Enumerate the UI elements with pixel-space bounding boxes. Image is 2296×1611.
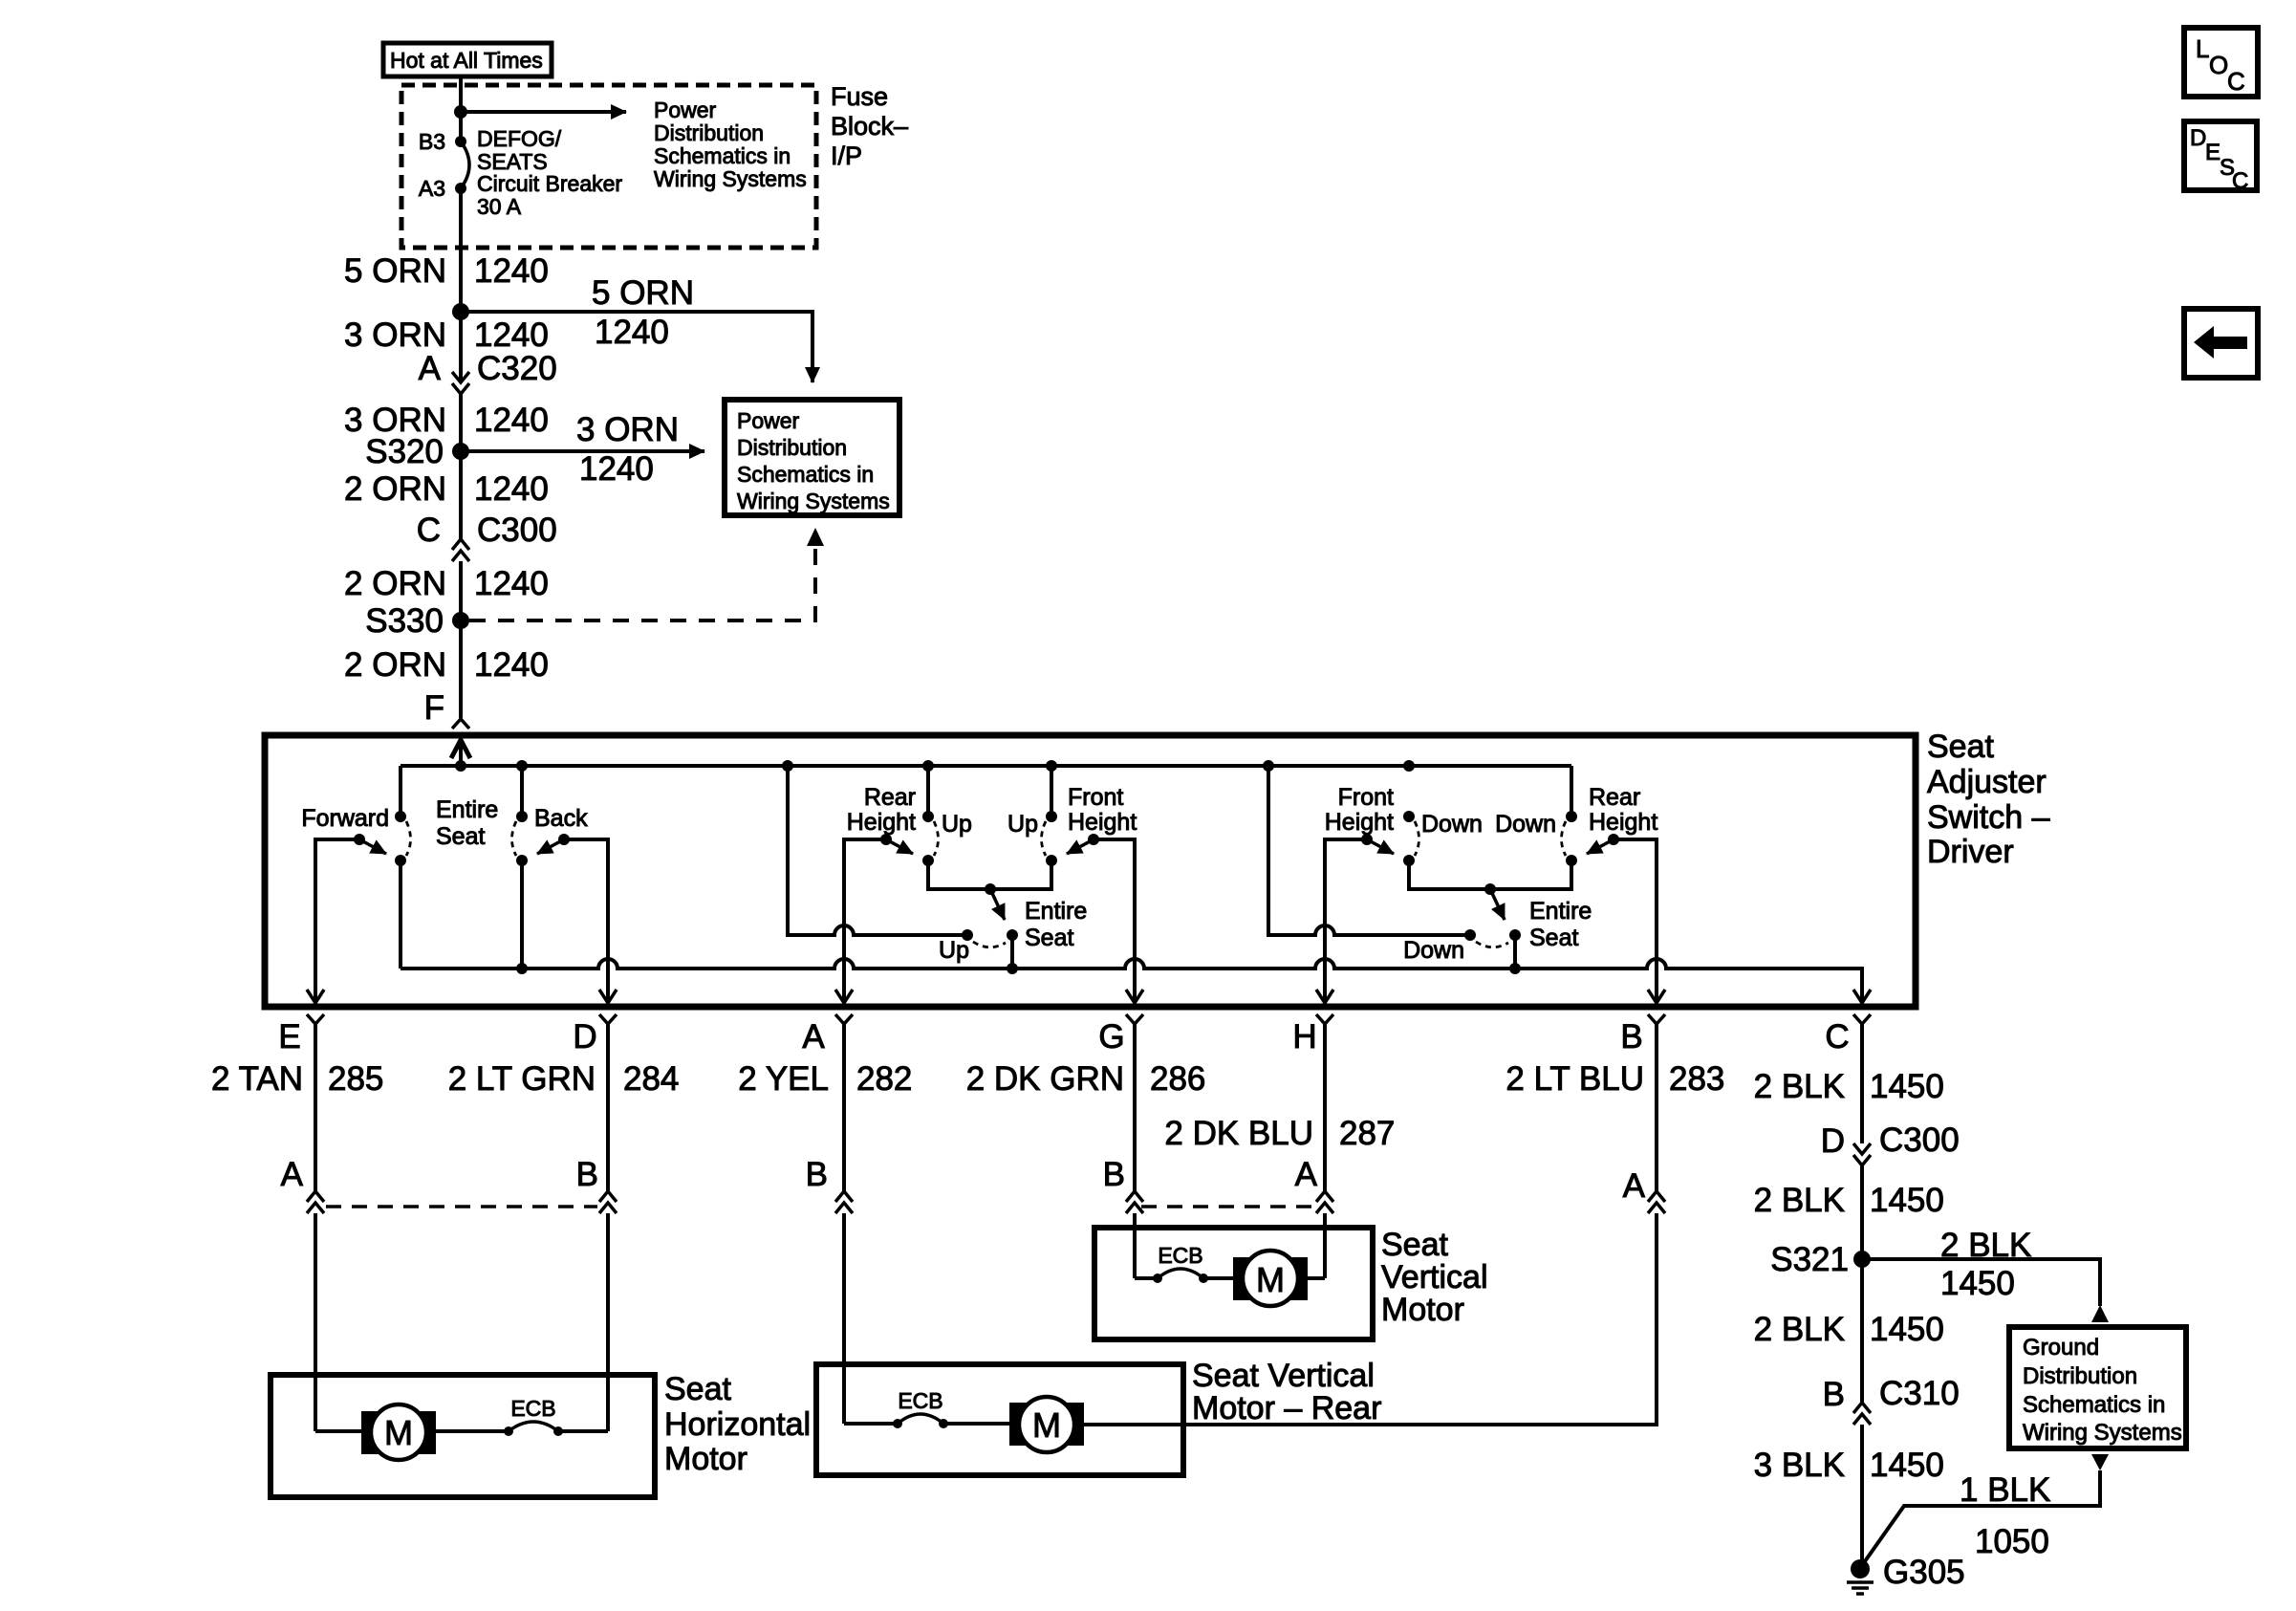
switch Entire Seat Up <box>939 883 1087 969</box>
svg-text:A3: A3 <box>419 176 445 201</box>
svg-text:Height: Height <box>847 809 916 836</box>
label 5 ORN 1240 <box>344 252 549 290</box>
connector C310 pin B <box>1823 1375 1960 1425</box>
svg-text:B: B <box>1823 1376 1845 1413</box>
svg-text:Schematics in: Schematics in <box>737 462 874 487</box>
vertical motor rear M <box>1009 1397 1183 1452</box>
svg-text:2 LT BLU: 2 LT BLU <box>1505 1060 1644 1098</box>
node entire seat down output on bus <box>1509 963 1521 974</box>
seat vertical motor label <box>1381 1227 1488 1328</box>
back arrow box <box>2184 309 2258 378</box>
internal supply bus <box>401 764 1571 768</box>
svg-text:Horizontal: Horizontal <box>664 1406 811 1443</box>
feed drop to back switch <box>520 766 524 816</box>
svg-text:Wiring Systems: Wiring Systems <box>654 166 807 191</box>
svg-text:B: B <box>576 1156 598 1193</box>
wire C320 to S320 <box>459 394 463 451</box>
svg-text:Distribution: Distribution <box>2023 1363 2137 1389</box>
branch 2 BLK 1450 to ground distribution box <box>1862 1227 2109 1322</box>
svg-text:C310: C310 <box>1879 1375 1960 1412</box>
link front/rear height down outputs <box>1409 860 1571 889</box>
svg-text:ECB: ECB <box>510 1396 555 1421</box>
svg-text:287: 287 <box>1339 1115 1395 1152</box>
node entire-seat-down feed <box>1263 760 1274 772</box>
svg-text:D: D <box>573 1018 596 1056</box>
vertical motor M <box>1233 1251 1325 1306</box>
svg-text:Motor: Motor <box>1381 1292 1464 1328</box>
svg-text:Seat: Seat <box>664 1371 731 1407</box>
fuse block label <box>831 82 908 170</box>
wire to C320 <box>459 312 463 382</box>
seat vertical motor box <box>1094 1228 1373 1339</box>
wire C300 to S330 <box>459 561 463 620</box>
label 2 ORN 1240 <box>344 470 549 508</box>
connector C300 pin D (ground path) <box>1821 1121 1960 1165</box>
exit arrow G <box>1126 990 1143 1003</box>
pin A3 <box>419 176 466 201</box>
back output wire <box>520 860 524 969</box>
svg-text:M: M <box>1256 1260 1285 1299</box>
seat adjuster switch box <box>265 735 1916 1007</box>
svg-text:2 TAN: 2 TAN <box>211 1060 303 1098</box>
svg-text:Switch –: Switch – <box>1927 799 2050 836</box>
svg-text:A: A <box>419 350 442 387</box>
svg-text:C: C <box>417 512 441 549</box>
splice S321 <box>1770 1241 1871 1278</box>
svg-text:1450: 1450 <box>1870 1311 1944 1348</box>
label 2 YEL 282 <box>738 1060 912 1098</box>
svg-text:Up: Up <box>1007 811 1038 838</box>
feed drop to entire seat up contact <box>788 766 963 935</box>
inline connector B on dk grn wire <box>1103 1156 1143 1213</box>
Hot at All Times box <box>383 43 552 76</box>
svg-text:E: E <box>278 1018 300 1056</box>
svg-text:1450: 1450 <box>1940 1265 2015 1302</box>
link rear/front height up outputs <box>928 860 1051 889</box>
svg-text:Seat: Seat <box>436 823 485 850</box>
svg-text:Front: Front <box>1068 784 1123 811</box>
svg-text:Entire: Entire <box>1025 898 1087 925</box>
svg-text:1240: 1240 <box>474 646 549 684</box>
svg-text:Height: Height <box>1325 809 1394 836</box>
svg-text:S321: S321 <box>1770 1241 1849 1278</box>
label 2 DK BLU 287 <box>1164 1115 1395 1152</box>
svg-text:2 DK GRN: 2 DK GRN <box>966 1060 1124 1098</box>
connector H below box <box>1292 1014 1333 1191</box>
internal bottom bus to C <box>401 959 1862 1002</box>
svg-text:S330: S330 <box>365 602 444 640</box>
rear height down pole wire to B <box>1614 839 1657 1002</box>
power distribution note (fuse block) <box>654 98 807 191</box>
DESC reference box <box>2184 121 2257 194</box>
node F on bus <box>455 760 466 772</box>
dashed link dk grn to dk blu connector <box>1141 1205 1317 1208</box>
svg-text:Rear: Rear <box>1589 784 1640 811</box>
entry arrow at F <box>451 740 470 766</box>
wire S321 to C310 <box>1860 1259 1864 1403</box>
svg-text:3 BLK: 3 BLK <box>1754 1447 1845 1484</box>
label 2 TAN 285 <box>211 1060 383 1098</box>
wire from Hot at All Times to circuit breaker B3 <box>459 76 463 142</box>
svg-text:Wiring Systems: Wiring Systems <box>737 489 890 513</box>
svg-text:2 BLK: 2 BLK <box>1940 1227 2031 1264</box>
wire A3 down to junction <box>459 188 463 312</box>
label 3 ORN 1240 <box>344 316 549 354</box>
junction in fuse block <box>454 105 467 119</box>
svg-text:1450: 1450 <box>1870 1182 1944 1219</box>
svg-text:I/P: I/P <box>831 142 862 170</box>
wire G to vertical motor <box>1133 1213 1137 1278</box>
wire B to vertical motor rear <box>1183 1213 1657 1425</box>
svg-text:C: C <box>2227 67 2245 96</box>
svg-text:G: G <box>1098 1018 1124 1056</box>
svg-text:282: 282 <box>856 1060 912 1098</box>
svg-text:1240: 1240 <box>474 402 549 439</box>
inline connector A on dk blu wire <box>1295 1156 1333 1213</box>
feed drop to forward switch <box>399 766 402 816</box>
svg-text:Rear: Rear <box>864 784 916 811</box>
forward output wire <box>399 860 402 969</box>
svg-text:Hot at All Times: Hot at All Times <box>390 48 543 73</box>
svg-text:Up: Up <box>939 937 969 964</box>
svg-text:2 YEL: 2 YEL <box>738 1060 829 1098</box>
back pole wire to D <box>564 839 608 1002</box>
svg-text:C: C <box>2232 168 2248 194</box>
switch Back <box>512 805 589 866</box>
node rear-height-up feed <box>922 760 934 772</box>
inline connector A on tan wire <box>281 1156 324 1213</box>
svg-text:D: D <box>2190 125 2206 151</box>
svg-text:Front: Front <box>1338 784 1394 811</box>
inline connector A on lt blu wire <box>1623 1167 1665 1213</box>
svg-text:Ground: Ground <box>2023 1335 2099 1361</box>
splice S330 <box>365 602 469 640</box>
svg-text:S320: S320 <box>365 433 444 470</box>
svg-text:5 ORN: 5 ORN <box>344 252 446 290</box>
feed drop to rear height down <box>1570 766 1573 816</box>
svg-text:2 LT GRN: 2 LT GRN <box>448 1060 596 1098</box>
svg-text:C: C <box>1825 1018 1849 1056</box>
svg-text:ECB: ECB <box>1158 1243 1202 1268</box>
inline connector B on yel wire <box>806 1156 853 1213</box>
switch Rear Height Up <box>847 784 972 866</box>
connector G below box <box>1098 1014 1143 1191</box>
power distribution box <box>725 400 899 515</box>
svg-text:A: A <box>281 1156 304 1193</box>
svg-text:3 ORN: 3 ORN <box>576 411 679 448</box>
node front-height-up feed <box>1046 760 1057 772</box>
switch Forward <box>301 805 410 866</box>
svg-text:Forward: Forward <box>301 805 389 832</box>
wire A to vertical motor rear <box>842 1213 846 1424</box>
seat vertical motor rear box <box>816 1364 1183 1475</box>
label 2 ORN 1240 <box>344 646 549 684</box>
svg-text:ECB: ECB <box>898 1388 942 1413</box>
wire C300 to S321 <box>1860 1165 1864 1259</box>
label 3 BLK 1450 <box>1754 1447 1944 1484</box>
fuse block dashed box <box>401 85 816 248</box>
svg-text:C300: C300 <box>1879 1121 1960 1159</box>
branch wire 5 ORN to power distribution box <box>461 312 812 382</box>
branch 1 BLK 1050 to ground distribution box <box>1865 1454 2109 1561</box>
feed drop to rear height up <box>926 766 930 816</box>
label 2 BLK 1450 <box>1754 1311 1944 1348</box>
svg-text:2 ORN: 2 ORN <box>344 470 446 508</box>
svg-text:B: B <box>806 1156 828 1193</box>
svg-text:D: D <box>1821 1122 1845 1160</box>
svg-text:2 BLK: 2 BLK <box>1754 1068 1845 1105</box>
connector B below box <box>1620 1014 1665 1191</box>
svg-text:Motor: Motor <box>664 1441 747 1477</box>
label 5 ORN 1240 (branch) <box>592 274 694 351</box>
svg-text:Distribution: Distribution <box>737 435 847 460</box>
node front-height-down feed <box>1403 760 1415 772</box>
seat adjuster switch label <box>1927 729 2050 870</box>
svg-text:B: B <box>1620 1018 1642 1056</box>
svg-text:Entire: Entire <box>1529 898 1592 925</box>
connector C below box <box>1825 1014 1871 1143</box>
exit arrow E <box>307 990 324 1003</box>
wire H to vertical motor <box>1323 1213 1327 1278</box>
junction node <box>452 303 469 320</box>
label 2 BLK 1450 <box>1754 1068 1944 1105</box>
arrow to power distribution note <box>461 110 626 114</box>
svg-text:Motor – Rear: Motor – Rear <box>1192 1390 1381 1426</box>
switch Rear Height Down <box>1495 784 1657 866</box>
svg-text:Entire: Entire <box>436 796 498 823</box>
wire D to horizontal motor <box>606 1213 610 1431</box>
wire C310 to G305 <box>1860 1425 1864 1567</box>
label 3 ORN 1240 <box>344 402 549 439</box>
seat horizontal motor label <box>664 1371 811 1477</box>
wire S320 to C300 <box>459 451 463 539</box>
connector C300 pin C <box>417 512 557 561</box>
exit arrow H <box>1316 990 1333 1003</box>
connector A below box <box>802 1014 853 1191</box>
svg-text:2 DK BLU: 2 DK BLU <box>1164 1115 1313 1152</box>
label 2 DK GRN 286 <box>966 1060 1206 1098</box>
svg-text:Schematics in: Schematics in <box>2023 1392 2165 1418</box>
svg-text:Seat: Seat <box>1025 925 1073 951</box>
label 2 ORN 1240 <box>344 565 549 602</box>
label 2 BLK 1450 (below C) <box>1754 1182 1944 1219</box>
front height up pole wire to G <box>1094 839 1135 1002</box>
svg-text:3 ORN: 3 ORN <box>344 316 446 354</box>
svg-text:H: H <box>1292 1018 1316 1056</box>
svg-text:1240: 1240 <box>579 450 654 488</box>
svg-text:DEFOG/: DEFOG/ <box>477 126 562 151</box>
svg-text:Vertical: Vertical <box>1381 1259 1488 1295</box>
connector C320 pin A <box>419 350 557 394</box>
svg-text:Down: Down <box>1403 937 1464 964</box>
inline connector B on lt grn wire <box>576 1156 617 1213</box>
svg-text:1240: 1240 <box>474 470 549 508</box>
node back output on bus <box>516 963 528 974</box>
front height down pole wire to H <box>1325 839 1367 1002</box>
svg-text:Down: Down <box>1495 811 1556 838</box>
switch Entire Seat Down <box>1403 883 1592 969</box>
dashed link tan to lt grn connector <box>326 1205 597 1208</box>
exit arrow B <box>1648 990 1665 1003</box>
svg-text:L: L <box>2196 34 2209 63</box>
svg-text:Height: Height <box>1589 809 1657 836</box>
svg-text:1240: 1240 <box>474 252 549 290</box>
forward pole wire to E <box>315 839 359 1002</box>
svg-text:C300: C300 <box>477 512 557 549</box>
svg-text:1240: 1240 <box>474 316 549 354</box>
svg-text:B3: B3 <box>419 129 445 154</box>
svg-text:Distribution: Distribution <box>654 120 764 145</box>
horizontal motor ECB <box>436 1396 608 1436</box>
svg-text:Wiring Systems: Wiring Systems <box>2023 1420 2182 1446</box>
svg-text:A: A <box>802 1018 825 1056</box>
splice S320 <box>365 433 469 470</box>
svg-text:Seat Vertical: Seat Vertical <box>1192 1358 1375 1394</box>
svg-text:283: 283 <box>1669 1060 1724 1098</box>
svg-text:Fuse: Fuse <box>831 82 888 111</box>
svg-text:2 ORN: 2 ORN <box>344 646 446 684</box>
vertical motor ECB <box>1135 1243 1233 1283</box>
seat horizontal motor box <box>271 1375 655 1497</box>
svg-text:F: F <box>424 689 444 727</box>
svg-text:Seat: Seat <box>1927 729 1994 765</box>
svg-text:1 BLK: 1 BLK <box>1960 1471 2050 1509</box>
switch Front Height Up <box>1007 784 1137 866</box>
svg-text:1450: 1450 <box>1870 1068 1944 1105</box>
svg-text:M: M <box>384 1413 413 1452</box>
circuit breaker DEFOG/SEATS 30 A <box>461 126 622 219</box>
svg-text:Adjuster: Adjuster <box>1927 764 2047 800</box>
svg-text:1240: 1240 <box>474 565 549 602</box>
dashed wire S330 to power distribution box <box>469 549 815 620</box>
connector pin F <box>424 689 469 729</box>
exit arrow A <box>835 990 853 1003</box>
svg-text:Schematics in: Schematics in <box>654 143 791 168</box>
svg-text:Back: Back <box>534 805 588 832</box>
svg-text:1240: 1240 <box>595 314 669 351</box>
exit arrow D <box>599 990 617 1003</box>
node entire seat up output on bus <box>1007 963 1018 974</box>
switch Front Height Down <box>1325 784 1483 866</box>
svg-text:286: 286 <box>1150 1060 1205 1098</box>
svg-text:Block–: Block– <box>831 112 908 141</box>
horizontal motor M <box>315 1404 436 1460</box>
svg-text:Driver: Driver <box>1927 834 2014 870</box>
svg-text:C320: C320 <box>477 350 557 387</box>
svg-text:5 ORN: 5 ORN <box>592 274 694 312</box>
vertical motor rear ECB <box>844 1388 1009 1428</box>
svg-text:284: 284 <box>623 1060 679 1098</box>
svg-text:B: B <box>1103 1156 1125 1193</box>
svg-text:M: M <box>1032 1405 1061 1445</box>
svg-text:Height: Height <box>1068 809 1137 836</box>
node entire-seat-up feed <box>782 760 793 772</box>
connector D below box <box>573 1014 617 1191</box>
rear height up pole wire to A <box>844 839 886 1002</box>
svg-text:E: E <box>2205 140 2220 165</box>
arrow 3 ORN to power distribution box <box>461 449 704 453</box>
wire E to horizontal motor <box>314 1213 317 1431</box>
svg-text:2 BLK: 2 BLK <box>1754 1182 1845 1219</box>
node back feed <box>516 760 528 772</box>
svg-text:2 ORN: 2 ORN <box>344 565 446 602</box>
svg-text:Power: Power <box>654 98 717 122</box>
svg-text:30 A: 30 A <box>477 194 522 219</box>
svg-text:Up: Up <box>942 811 972 838</box>
ground distribution box <box>2009 1327 2186 1448</box>
svg-text:2 BLK: 2 BLK <box>1754 1311 1845 1348</box>
label 2 LT BLU 283 <box>1505 1060 1724 1098</box>
svg-text:1450: 1450 <box>1870 1447 1944 1484</box>
svg-text:285: 285 <box>328 1060 383 1098</box>
wire S330 to F <box>459 620 463 718</box>
exit arrow C <box>1853 990 1871 1003</box>
connector E below box <box>278 1014 324 1191</box>
feed drop to front height up <box>1050 766 1053 816</box>
svg-text:A: A <box>1623 1167 1646 1205</box>
svg-text:Seat: Seat <box>1381 1227 1448 1263</box>
svg-text:Power: Power <box>737 408 800 433</box>
seat vertical motor rear label <box>1192 1358 1381 1426</box>
svg-text:A: A <box>1295 1156 1318 1193</box>
svg-text:O: O <box>2209 51 2228 79</box>
svg-text:Circuit Breaker: Circuit Breaker <box>477 171 622 196</box>
ground G305 <box>1847 1554 1965 1594</box>
svg-text:G305: G305 <box>1883 1554 1965 1591</box>
svg-text:1050: 1050 <box>1975 1523 2049 1560</box>
label 2 LT GRN 284 <box>448 1060 680 1098</box>
svg-text:Seat: Seat <box>1529 925 1578 951</box>
LOC reference box <box>2184 28 2258 97</box>
label 3 ORN 1240 (branch) <box>576 411 679 488</box>
label Entire Seat (top left) <box>436 796 498 850</box>
svg-text:Down: Down <box>1421 811 1483 838</box>
pin B3 <box>419 129 466 154</box>
feed drop to entire seat down contact <box>1268 766 1465 935</box>
